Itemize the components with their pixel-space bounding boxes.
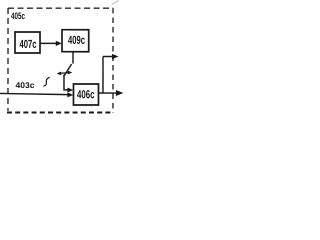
svg-text:409c: 409c	[68, 34, 85, 47]
svg-text:407c: 407c	[20, 38, 37, 51]
block 406c	[73, 84, 98, 105]
dashed enclosure box 405c right border	[112, 8, 114, 113]
arrowhead into 409c	[56, 41, 62, 46]
arrowhead lower input 406c	[67, 92, 73, 97]
wire down to 406c upper input	[64, 75, 68, 90]
dashed enclosure box 405c left border	[7, 8, 9, 111]
arrowhead output right lower	[116, 90, 123, 96]
leader squiggle from label 403c	[43, 77, 49, 86]
arrowhead upper input 406c	[67, 88, 73, 93]
block 409c	[62, 30, 89, 52]
label 407c	[20, 38, 37, 51]
label 406c	[77, 88, 95, 101]
diagonal jog wire through variable symbol	[64, 64, 71, 76]
label 409c	[68, 34, 85, 47]
wire down from 409c bottom	[72, 52, 74, 64]
variable adjustment double-headed arrow	[57, 71, 73, 76]
svg-text:405c: 405c	[11, 11, 25, 22]
arrowhead output right upper	[112, 54, 119, 59]
wire 407c to 409c	[40, 42, 57, 44]
stray faint stroke top-right	[112, 1, 119, 5]
svg-text:406c: 406c	[77, 88, 95, 101]
svg-text:403c: 403c	[15, 80, 34, 90]
dashed enclosure box 405c bottom border	[7, 111, 113, 113]
output wire from 406c	[98, 92, 117, 94]
label 403c	[15, 80, 34, 90]
label 405c	[11, 11, 25, 22]
dashed enclosure box 405c top border	[8, 7, 113, 9]
branch wire up from output node	[102, 57, 104, 93]
block 407c	[15, 32, 40, 53]
branch wire right upper	[103, 56, 113, 58]
input wire 403c	[0, 93, 68, 94]
